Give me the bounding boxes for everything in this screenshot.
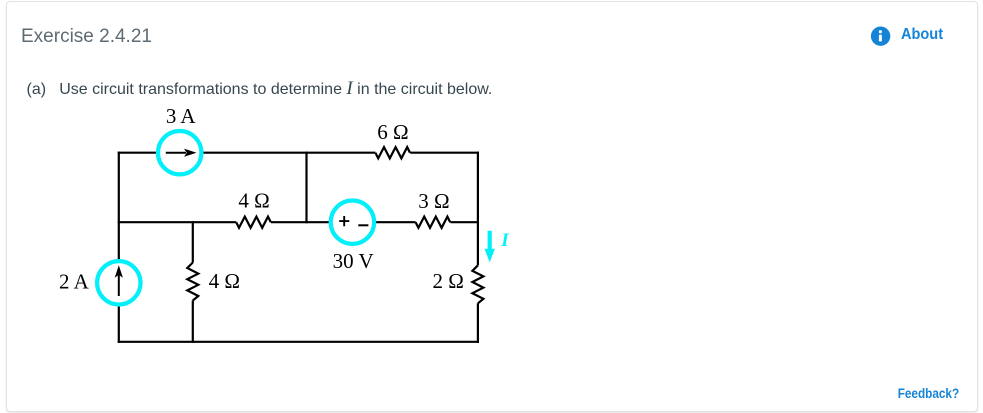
svg-text:4 Ω: 4 Ω [238, 189, 269, 213]
svg-text:I: I [500, 230, 509, 251]
resistor R 3ohm [416, 217, 451, 228]
resistor R 4ohm vertical [187, 263, 198, 301]
wire left vertical [118, 152, 120, 343]
svg-text:3 A: 3 A [166, 104, 197, 128]
resistor R 6ohm [375, 147, 410, 158]
About link [901, 27, 943, 43]
svg-text:4 Ω: 4 Ω [209, 269, 240, 293]
polarity plus [339, 216, 349, 226]
wire middle vertical [305, 152, 307, 224]
svg-text:6 Ω: 6 Ω [377, 120, 408, 144]
resistor R 4ohm horizontal [236, 217, 271, 228]
wire middle horizontal [118, 221, 479, 223]
title Exercise 2.4.21 [21, 27, 152, 46]
voltage source V 30V [331, 201, 374, 244]
wire bottom [118, 341, 479, 343]
svg-text:2 Ω: 2 Ω [433, 269, 464, 293]
resistor R 2ohm [472, 265, 483, 303]
svg-text:2 A: 2 A [59, 269, 90, 293]
Feedback link [898, 385, 959, 401]
statement [27, 82, 47, 98]
arrow of 2A source [118, 272, 120, 296]
arrow of 3A source [166, 152, 186, 154]
current source 3A [158, 131, 201, 174]
wire second vertical [192, 221, 194, 343]
current source 2A [97, 261, 140, 304]
svg-text:3 Ω: 3 Ω [418, 189, 449, 213]
wire top node [118, 152, 479, 154]
current arrow I [488, 231, 492, 249]
wire right vertical [477, 152, 479, 343]
polarity minus [358, 224, 368, 226]
svg-text:30 V: 30 V [333, 249, 374, 273]
